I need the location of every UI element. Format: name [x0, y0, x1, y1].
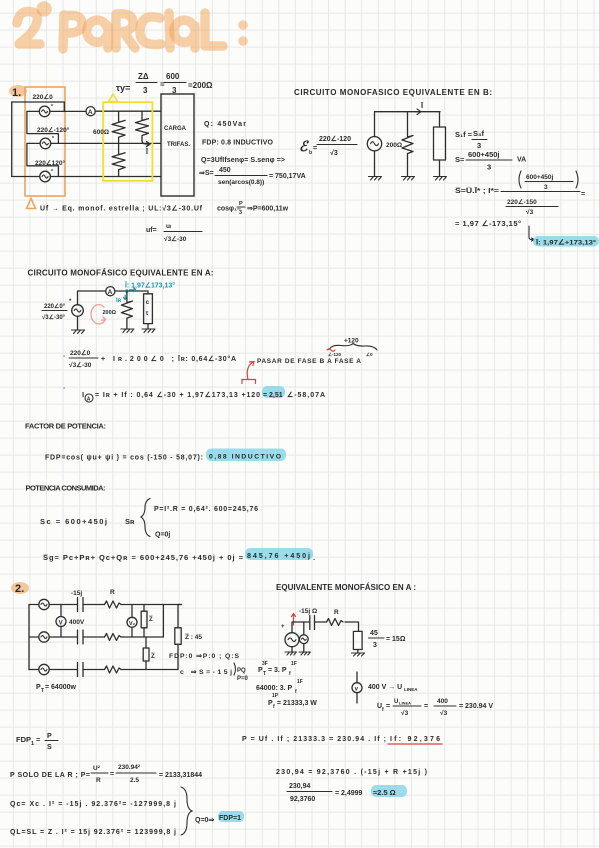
impedance Z45 branch — [178, 605, 182, 628]
source V2 (phase B) — [40, 138, 51, 149]
svg-text:600+450j: 600+450j — [468, 150, 500, 159]
svg-text:.: . — [313, 553, 315, 562]
svg-text:f: f — [273, 704, 275, 710]
svg-text:=: = — [424, 703, 428, 710]
wire: staircase to source 2 — [27, 111, 59, 143]
svg-text:Sʀ: Sʀ — [125, 517, 135, 526]
svg-text:=200Ω: =200Ω — [188, 81, 213, 90]
svg-text:400: 400 — [437, 698, 448, 705]
three-phase load box — [161, 94, 194, 196]
resistor R3 — [105, 666, 122, 673]
circuit 2 (three-phase with caps and resistors) — [29, 589, 202, 694]
svg-text:FDP=cos( ψu+ ψi ) = cos (-150: FDP=cos( ψu+ ψi ) = cos (-150 - 58,07): — [45, 455, 203, 462]
P = Uf If line — [242, 736, 442, 744]
ground (box) — [434, 177, 447, 181]
svg-text:v: v — [355, 687, 359, 693]
problem 1 marker — [9, 85, 27, 99]
svg-text:CIRCUITO MONOFÁSICO EQUIVAL: CIRCUITO MONOFÁSICO EQUIVALENTE EN A: — [28, 269, 214, 278]
wire: phase A line to ammeter and load — [50, 110, 86, 112]
svg-text:I: I — [82, 390, 84, 399]
svg-text:S̅=U̅.Ī* ; I*=: S̅=U̅.Ī* ; I*= — [454, 186, 499, 195]
svg-text:-: - — [63, 353, 66, 360]
svg-text:*: * — [51, 104, 53, 110]
S equations right — [455, 129, 526, 172]
svg-text:∠-120: ∠-120 — [328, 352, 342, 357]
red arrow from +120 to note — [242, 362, 256, 384]
svg-text:92,3760: 92,3760 — [290, 796, 315, 803]
svg-text:Ī: Ī — [145, 148, 149, 156]
svg-text:1.: 1. — [12, 87, 21, 99]
svg-text:220∠0: 220∠0 — [70, 349, 91, 357]
resistor R2 — [105, 634, 122, 641]
svg-text:Ī: Ī — [420, 101, 424, 110]
source S1 — [29, 604, 39, 606]
svg-text:Ī: 1,97∠+173,13°: Ī: 1,97∠+173,13° — [535, 239, 596, 247]
svg-text:S=: S= — [455, 155, 465, 164]
svg-text:0,88 INDUCTIVO: 0,88 INDUCTIVO — [209, 454, 281, 461]
svg-text:Q=3UfIfsenφ= S.senφ =>: Q=3UfIfsenφ= S.senφ => — [201, 157, 285, 164]
svg-text:600Ω: 600Ω — [93, 129, 109, 136]
230,94 equation right — [276, 769, 427, 803]
wire: source top to ammeter — [78, 291, 106, 305]
svg-text:S₁f =: S₁f = — [455, 130, 473, 139]
svg-text:EQUIVALENTE MONOFÁSICO EN A: EQUIVALENTE MONOFÁSICO EN A : — [276, 583, 416, 592]
capacitor plates — [310, 616, 315, 630]
svg-text:∠-58,07A: ∠-58,07A — [287, 391, 325, 399]
svg-text:220∠-120°: 220∠-120° — [37, 126, 70, 134]
svg-text:c: c — [146, 300, 150, 306]
source U (circle) — [72, 305, 84, 317]
svg-text:If: 92,376: If: 92,376 — [390, 736, 440, 743]
svg-text:S: S — [47, 744, 52, 751]
wire: phase B line — [51, 142, 161, 144]
resistor R1 — [105, 601, 122, 608]
ground (impedance) — [352, 653, 365, 656]
svg-text:ZΔ: ZΔ — [138, 72, 149, 81]
resistor zigzag — [327, 619, 344, 626]
svg-text:TRIFAS.: TRIFAS. — [167, 142, 190, 148]
svg-text:3: 3 — [544, 184, 548, 191]
svg-text:T: T — [41, 688, 44, 694]
svg-text:FDP:0 ⇒P:0 ; Q:S: FDP:0 ⇒P:0 ; Q:S — [169, 653, 239, 660]
svg-text:450: 450 — [219, 167, 231, 174]
Sg sum — [43, 548, 316, 562]
svg-text:P=0: P=0 — [237, 676, 249, 682]
wire: top — [292, 622, 359, 633]
impedance Z2 — [145, 637, 147, 648]
source U (circle) — [367, 137, 381, 151]
svg-text:S₃f: S₃f — [473, 129, 484, 138]
svg-text:√3: √3 — [330, 149, 338, 157]
wire: bus bottom to source 3 — [12, 176, 40, 178]
svg-text:A: A — [88, 109, 93, 116]
circuit B — [367, 101, 446, 180]
FDP equation — [45, 449, 286, 462]
svg-text:Ī: 1,97∠173,13°: Ī: 1,97∠173,13° — [124, 282, 175, 290]
source S2 — [29, 636, 39, 638]
highlight 2,51 — [262, 386, 285, 398]
source V1 (phase A) — [39, 106, 50, 117]
svg-text:Sc = 600+450j: Sc = 600+450j — [40, 517, 107, 526]
svg-text:Z̅: Z̅ — [149, 616, 153, 623]
svg-text:=: = — [160, 80, 165, 89]
svg-text:P SOLO DE LA R ; P=: P SOLO DE LA R ; P= — [10, 772, 90, 779]
source S3 — [29, 669, 39, 671]
wire: phase C line — [50, 176, 161, 178]
svg-text:Qc= Xc . I² = -15j . 92.376²=: Qc= Xc . I² = -15j . 92.376²= -127999,8 … — [10, 801, 176, 808]
resistor R2 600ohm (right) — [136, 111, 149, 140]
wire: left bus — [11, 102, 13, 177]
voltmeter V1 — [60, 605, 62, 638]
wire: right vertical top-middle — [162, 605, 164, 638]
svg-text:3: 3 — [239, 210, 242, 216]
equation line I_A — [63, 385, 325, 403]
circuit 1: three-phase source box (orange) — [25, 87, 65, 196]
svg-text:S̅g= Pc+Pʀ+ Qc+Qʀ = 600+245,76: S̅g= Pc+Pʀ+ Qc+Qʀ = 600+245,76 +450j + 0… — [43, 553, 244, 562]
wire: left bus — [28, 605, 30, 670]
voltmeter V2 — [131, 605, 133, 638]
capacitor C2 — [78, 630, 84, 644]
svg-text:3: 3 — [477, 141, 481, 150]
svg-text:= 750,17VA: = 750,17VA — [269, 173, 306, 180]
wire: phase 3 — [49, 669, 178, 671]
impedance box Z — [439, 112, 441, 127]
svg-text:U: U — [394, 699, 398, 705]
wire: phase 2 — [49, 636, 163, 638]
svg-text:= 2133,31844: = 2133,31844 — [159, 772, 202, 779]
svg-text:*: * — [52, 136, 54, 142]
svg-text:2.5: 2.5 — [130, 777, 139, 784]
svg-text:220∠120°: 220∠120° — [35, 159, 66, 167]
FDP1 fraction — [16, 733, 58, 751]
ground (box A) — [142, 329, 155, 333]
circuit 2 equivalent — [281, 608, 406, 656]
svg-text:Q=0⇒: Q=0⇒ — [195, 817, 214, 824]
svg-text:= Iʀ + If : 0,64 ∠-30 + 1,97∠1: = Iʀ + If : 0,64 ∠-30 + 1,97∠173,13 +120 — [95, 391, 260, 399]
svg-text:230,94: 230,94 — [289, 783, 311, 790]
svg-text:=: = — [313, 145, 317, 152]
svg-text:64000: 3. P: 64000: 3. P — [256, 685, 293, 692]
equation line KVL phase A — [63, 349, 236, 369]
svg-text:Īʀ: 0,64∠-30°A: Īʀ: 0,64∠-30°A — [177, 355, 236, 363]
svg-text:220∠0: 220∠0 — [33, 93, 54, 101]
source V3 (phase C) — [40, 171, 51, 182]
svg-text:FDP=1: FDP=1 — [219, 815, 241, 822]
voltmeter note — [352, 672, 493, 717]
svg-text:230.94²: 230.94² — [118, 764, 141, 771]
svg-text:τ: τ — [146, 311, 149, 317]
svg-text:=: = — [581, 191, 585, 198]
ground (resistor A) — [121, 329, 134, 333]
svg-text:= 64000w: = 64000w — [45, 684, 76, 691]
load data notes — [199, 121, 306, 186]
svg-text:QL=SL = Z . I² = 15j 92.376²: QL=SL = Z . I² = 15j 92.376² = 123999,8 … — [10, 829, 176, 836]
impedance Z1 — [143, 605, 145, 612]
wire box to ground — [147, 324, 149, 329]
svg-text:V₂: V₂ — [129, 621, 136, 627]
svg-text:-15j: -15j — [71, 590, 82, 597]
wire: source bottom — [77, 316, 79, 330]
svg-text:V: V — [59, 621, 63, 627]
svg-text:3: 3 — [487, 163, 491, 172]
wire: phase A continues — [95, 110, 161, 112]
svg-text:R: R — [110, 589, 115, 596]
svg-text:P: P — [239, 201, 243, 207]
svg-text:400V: 400V — [69, 619, 85, 626]
red mesh loop — [91, 305, 106, 324]
svg-text:sen(arcos(0.8)): sen(arcos(0.8)) — [218, 179, 264, 186]
svg-text:POTENCIA CONSUMIDA:: POTENCIA CONSUMIDA: — [26, 484, 106, 493]
svg-text:400 V → U: 400 V → U — [368, 684, 402, 691]
svg-text:√3: √3 — [526, 208, 534, 216]
svg-text:U²: U² — [93, 765, 101, 772]
svg-text:CIRCUITO MONOFASICO EQUIVAL: CIRCUITO MONOFASICO EQUIVALENTE EN B: — [294, 88, 492, 97]
svg-text:2.: 2. — [15, 583, 24, 595]
svg-text:P=I².R = 0,64². 600=245,76: P=I².R = 0,64². 600=245,76 — [154, 506, 258, 513]
svg-text:√3∠-30: √3∠-30 — [164, 235, 187, 243]
svg-text:Uf → Eq. monof. estrella ; UL:: Uf → Eq. monof. estrella ; UL:√3∠-30.Uf — [40, 205, 203, 213]
svg-text:Z̅ : 45: Z̅ : 45 — [185, 633, 202, 641]
svg-text:PQ: PQ — [237, 668, 246, 674]
wire: top with arrow — [375, 112, 441, 137]
wire: ammeter to box — [115, 291, 148, 294]
svg-text:A: A — [108, 289, 113, 296]
svg-text:600+450j: 600+450j — [526, 174, 553, 181]
svg-text:-: - — [63, 385, 66, 392]
svg-text:√3: √3 — [440, 709, 448, 717]
svg-text:√3∠-30°: √3∠-30° — [42, 314, 66, 321]
svg-text:∠0: ∠0 — [366, 352, 373, 357]
wire: top stub — [12, 102, 65, 111]
svg-text:= 15Ω: = 15Ω — [386, 636, 406, 643]
resistor R3 600ohm (lower left) — [112, 153, 125, 177]
svg-text:220∠-120: 220∠-120 — [319, 135, 351, 143]
svg-text:⇒S=: ⇒S= — [199, 170, 214, 177]
ground (source) — [369, 177, 382, 181]
svg-text:200Ω: 200Ω — [386, 142, 402, 149]
svg-text:Q: 450Var: Q: 450Var — [204, 121, 246, 128]
svg-text:uₗ: uₗ — [166, 223, 171, 230]
svg-text:A: A — [87, 397, 91, 403]
PT equations — [256, 661, 317, 710]
delta load box (yellow) — [103, 102, 152, 181]
circuit A — [42, 287, 155, 334]
svg-text:Z̅: Z̅ — [151, 653, 155, 660]
svg-text:= 1,97 ∠-173,15°: = 1,97 ∠-173,15° — [455, 219, 521, 228]
svg-text:f: f — [295, 689, 297, 695]
svg-text:Q=0j: Q=0j — [155, 532, 170, 539]
wire: box to ground — [439, 160, 441, 176]
delta-to-wye note line — [27, 199, 289, 244]
svg-text:=: = — [386, 703, 390, 710]
svg-text:3: 3 — [373, 642, 377, 649]
delta marker (yellow) — [109, 94, 118, 102]
brace and result — [181, 787, 244, 835]
svg-text:√3: √3 — [401, 709, 409, 717]
svg-text:1F: 1F — [297, 679, 303, 685]
svg-text:= 2,4999: = 2,4999 — [335, 790, 363, 797]
svg-text:+: + — [281, 624, 285, 630]
svg-text:P = Uf . If ; 21333.3 = 230.94: P = Uf . If ; 21333.3 = 230.94 . If ; — [242, 736, 386, 743]
Sc / SR system — [40, 499, 258, 539]
svg-text:= 2,51: = 2,51 — [263, 392, 283, 399]
grounds under sources — [292, 644, 304, 652]
+120 phase-shift note — [242, 338, 377, 384]
svg-text:τy=: τy= — [116, 83, 130, 93]
svg-text:3F: 3F — [262, 661, 268, 667]
teal current marks — [125, 289, 129, 293]
impedance box — [353, 631, 362, 649]
svg-text:√3∠-30: √3∠-30 — [69, 361, 92, 369]
ground (source A) — [72, 330, 85, 334]
svg-text:f: f — [289, 671, 291, 677]
P solo de la R line — [10, 764, 202, 784]
capacitor C3 — [78, 663, 84, 677]
svg-text:CARGA: CARGA — [164, 126, 187, 132]
svg-text:*: * — [69, 299, 72, 305]
svg-text:1F: 1F — [291, 661, 297, 667]
ammeter A1 — [86, 107, 95, 116]
load box C — [144, 294, 153, 324]
svg-text:PASAR DE FASE B A FASE A: PASAR DE FASE B A FASE A — [257, 358, 361, 365]
capacitor C1 — [78, 598, 84, 612]
svg-text:FDP: 0.8 INDUCTIVO: FDP: 0.8 INDUCTIVO — [202, 140, 274, 147]
highlight result I — [533, 236, 599, 247]
ground (resistor) — [402, 177, 415, 181]
svg-text:-15j Ω: -15j Ω — [299, 608, 317, 615]
svg-text:P: P — [47, 733, 52, 740]
svg-text:220∠-150: 220∠-150 — [507, 198, 537, 206]
svg-text:220∠0°: 220∠0° — [44, 303, 66, 310]
svg-text:FACTOR DE POTENCIA:: FACTOR DE POTENCIA: — [25, 422, 106, 431]
svg-text:= 21333,3 W: = 21333,3 W — [277, 700, 317, 707]
svg-text:1P: 1P — [272, 693, 279, 699]
svg-text:600: 600 — [166, 72, 180, 81]
svg-text:*: * — [51, 169, 53, 175]
svg-text:R: R — [96, 777, 101, 784]
source circle — [285, 633, 299, 647]
svg-text:3: 3 — [143, 86, 148, 95]
svg-text:LINEA: LINEA — [399, 701, 411, 706]
wire: source to ground — [374, 151, 376, 176]
wire: staircase to source 3 — [27, 143, 59, 176]
svg-text:R: R — [334, 609, 339, 616]
svg-text:Iʀ: Iʀ — [116, 298, 122, 304]
svg-text:230,94 = 92,3760 . (-15j + R: 230,94 = 92,3760 . (-15j + R +15j ) — [276, 769, 427, 776]
red current mark — [292, 614, 296, 626]
svg-text:LINEA: LINEA — [404, 687, 418, 692]
svg-text:=: = — [36, 735, 41, 744]
svg-text:=: = — [110, 771, 114, 778]
svg-text:1: 1 — [31, 741, 34, 747]
svg-text:200Ω: 200Ω — [103, 310, 117, 316]
svg-text:FDP: FDP — [16, 735, 31, 744]
svg-text:⇒P=600,11w: ⇒P=600,11w — [247, 206, 289, 213]
svg-text:= 3. P: = 3. P — [268, 667, 287, 674]
svg-text:uf=: uf= — [146, 227, 157, 234]
resistor R1 600ohm (upper left) — [112, 111, 125, 154]
companion circle — [299, 635, 308, 644]
tau_y equation — [116, 72, 213, 95]
ammeter A2 — [106, 287, 115, 296]
E_b equation — [299, 135, 357, 157]
svg-text:+ Iʀ.200∠0 ;: + Iʀ.200∠0 ; — [101, 355, 174, 363]
svg-text:c ⇒S=-15j: c ⇒S=-15j — [180, 669, 232, 676]
svg-text:= 230.94 V: = 230.94 V — [459, 703, 493, 710]
notes right of circuit 2 — [169, 653, 249, 682]
svg-text:b: b — [309, 150, 312, 156]
svg-text:T: T — [263, 671, 266, 677]
svg-text:f: f — [382, 707, 384, 713]
problem 2 marker — [11, 582, 29, 595]
wire: phase 1 — [49, 604, 181, 606]
svg-text:+120: +120 — [344, 338, 359, 345]
svg-text:VA: VA — [517, 157, 526, 164]
title marker "2° PARCIAL:" — [17, 6, 243, 49]
svg-text:45: 45 — [370, 630, 378, 637]
svg-text:≈2.5 Ω: ≈2.5 Ω — [373, 788, 396, 797]
current arrow I into node — [142, 141, 150, 147]
